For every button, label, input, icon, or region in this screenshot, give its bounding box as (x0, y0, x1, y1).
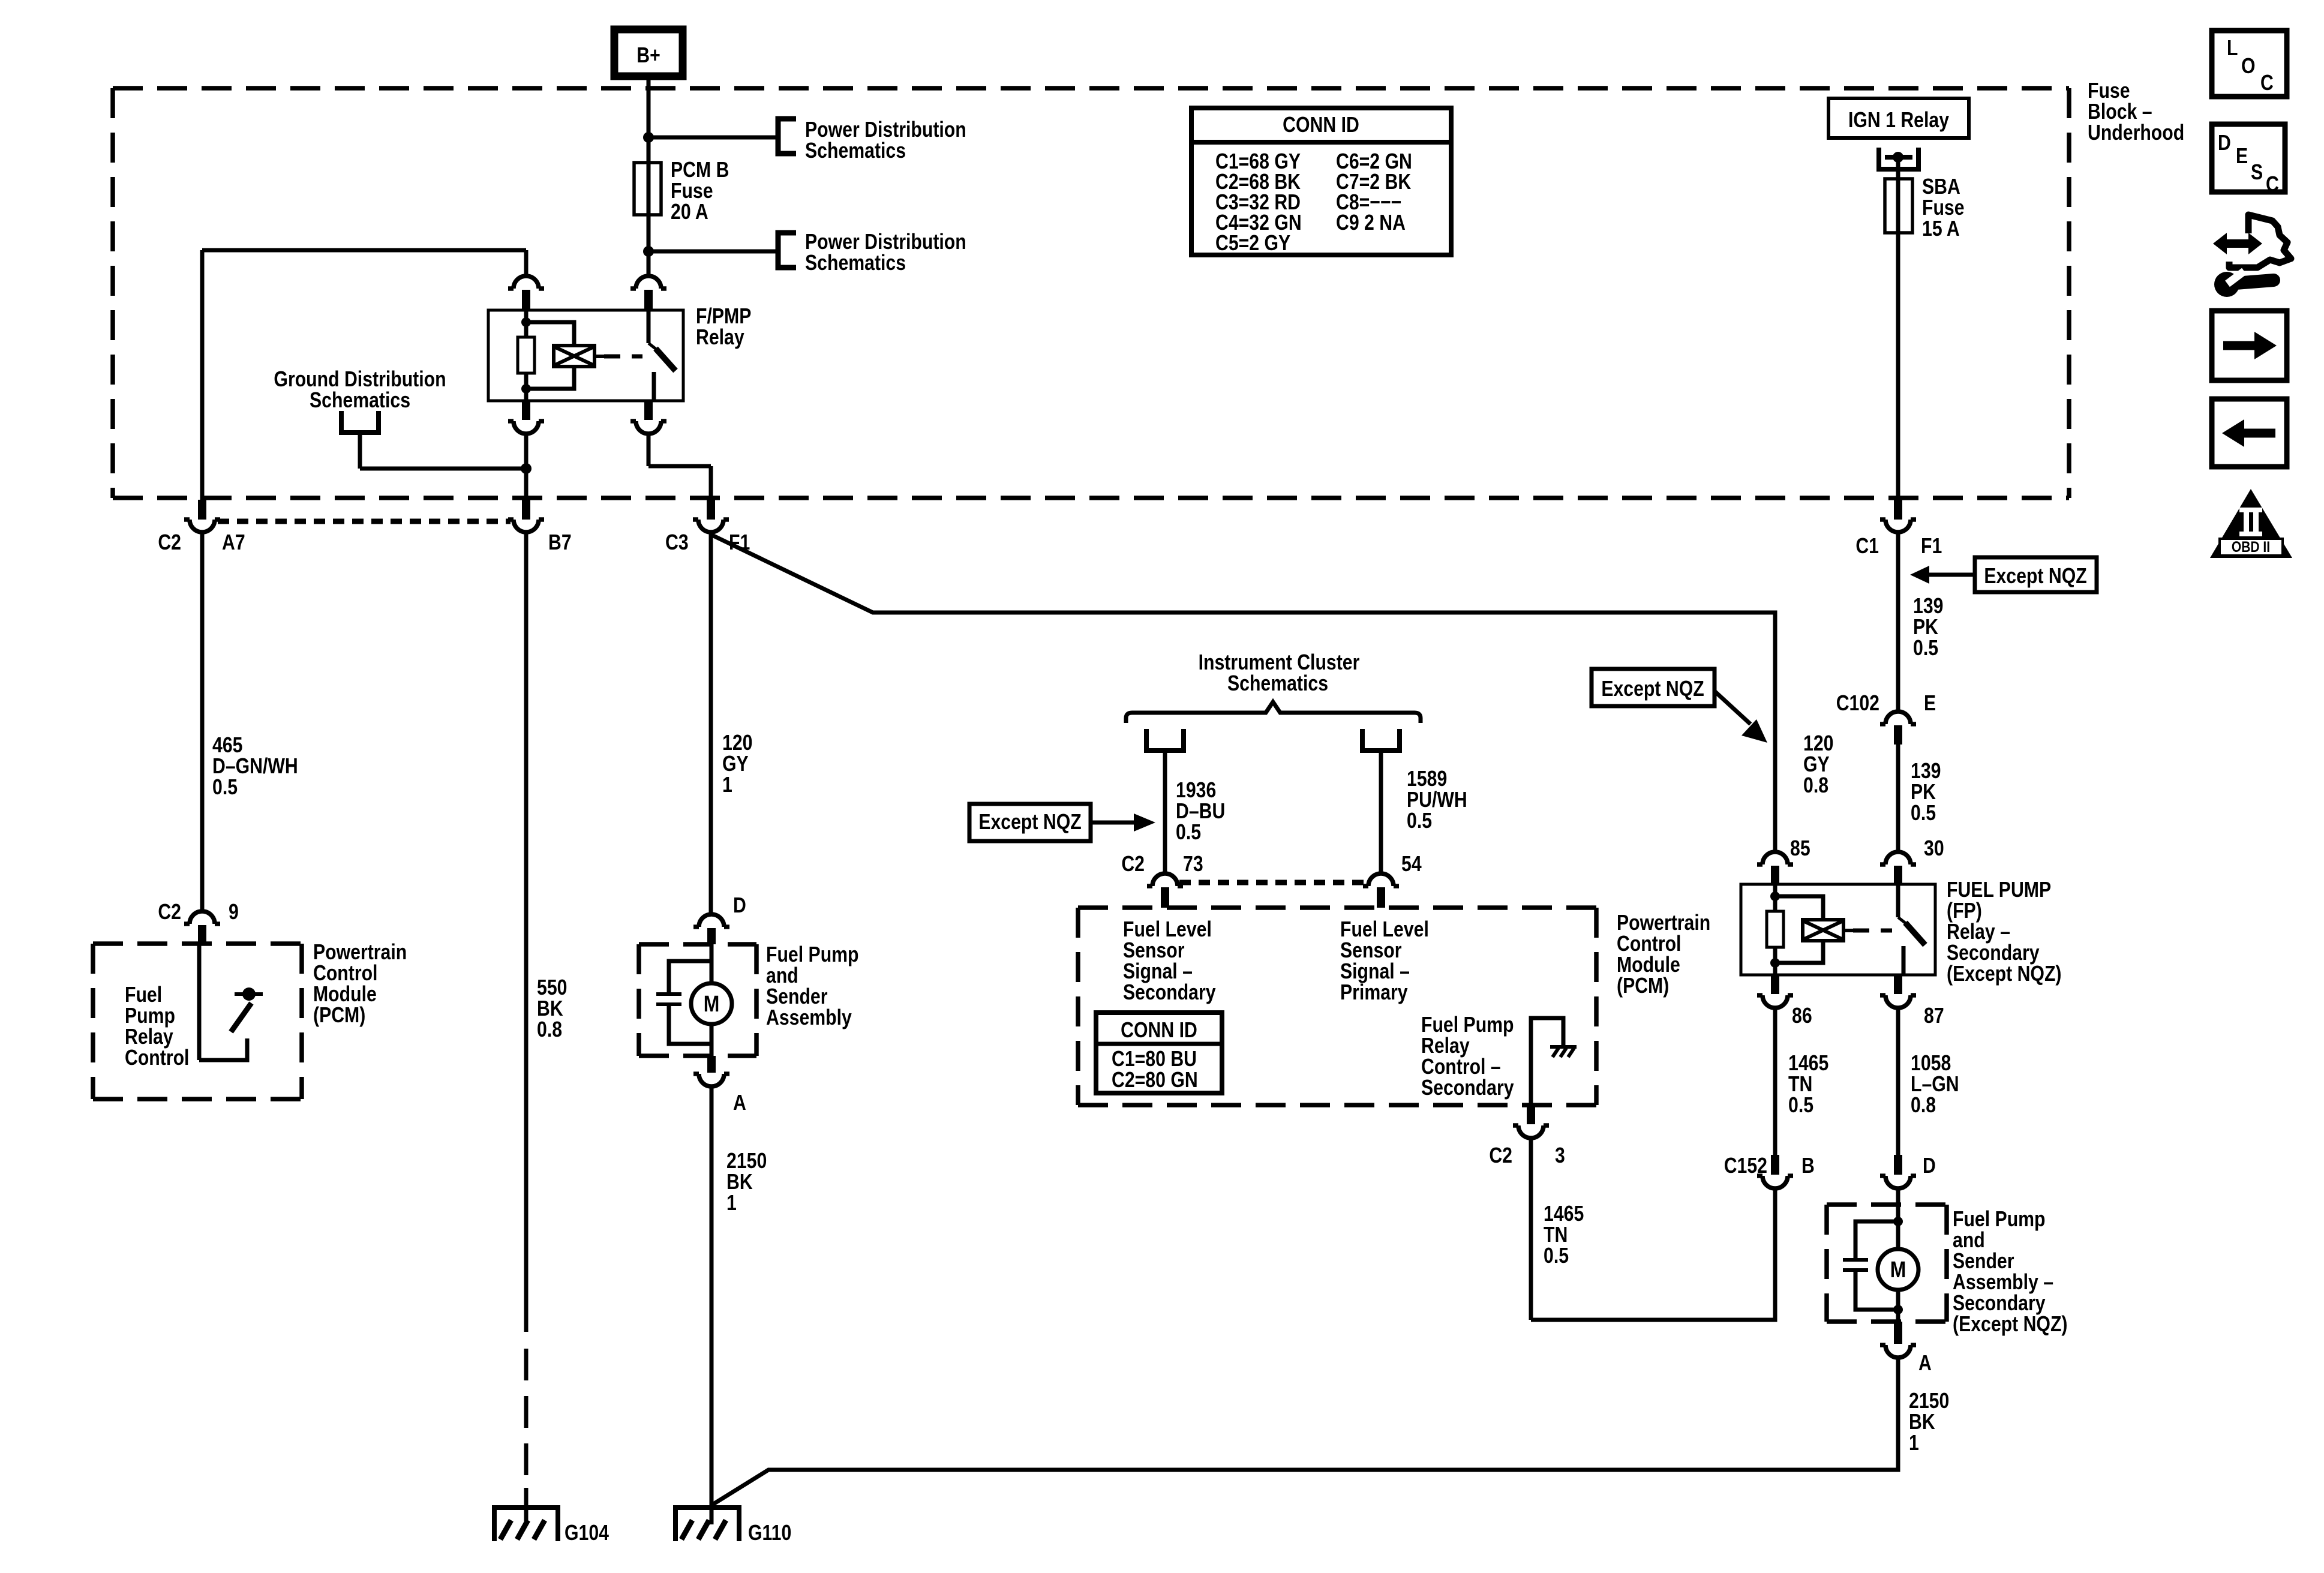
svg-text:L: L (2227, 37, 2238, 61)
connector arc F/PMP relay switch bottom pin (636, 421, 661, 434)
pin stub C2-3 (1527, 1104, 1535, 1124)
terminal ground distribution pointer (339, 411, 381, 433)
wire 1936 D-BU (1163, 751, 1167, 872)
wire down to C3 F1 (709, 466, 713, 500)
table CONN ID (PCM) (1096, 1013, 1222, 1093)
motor M primary fuel pump with capacitor (710, 944, 714, 983)
wire 2150 BK 1 to G110 (710, 1088, 714, 1524)
pin stub D (primary pump) (707, 928, 716, 944)
icon LOC box (2212, 31, 2287, 97)
connector arc F/PMP relay switch top pin (636, 276, 661, 289)
svg-text:C102: C102 (1836, 692, 1879, 716)
wire jog right (648, 464, 711, 469)
wire 550 BK 0.8 (524, 534, 529, 1332)
connector arc FP relay pin 30 (1885, 852, 1911, 864)
svg-text:87: 87 (1924, 1004, 1944, 1028)
svg-text:G110: G110 (748, 1521, 791, 1545)
switch fuel pump relay control driver (197, 944, 202, 1060)
svg-text:E: E (1924, 692, 1936, 716)
dotted link C2A7 to B7 (218, 519, 511, 524)
pin stub F/PMP relay coil top (522, 290, 530, 310)
box Powertrain Control Module PCM (dashed) (1078, 908, 1596, 1105)
connector arc FP relay pin 86 (1762, 995, 1788, 1008)
icon OBD II triangle (2210, 489, 2292, 558)
svg-text:(Except NQZ): (Except NQZ) (1947, 962, 2061, 986)
wire relay coil feed horizontal (202, 248, 526, 253)
pin stub connector C2 A7 (198, 500, 206, 520)
junction dot IGN 1 relay output (1893, 152, 1903, 163)
callout box Except NQZ 3 (969, 804, 1091, 841)
icon diagnostic scan tool (2213, 215, 2291, 297)
dotted link 73 to 54 (1179, 880, 1366, 885)
callout box Except NQZ 1 (1975, 557, 2097, 592)
pin stub C102 (1894, 725, 1902, 745)
wire through PCM B fuse (647, 163, 651, 215)
wire coil return to B7 (524, 434, 529, 500)
svg-text:B+: B+ (636, 44, 660, 68)
pin stub 54 (1377, 887, 1385, 908)
svg-text:O: O (2241, 55, 2256, 79)
svg-text:30: 30 (1924, 837, 1944, 861)
svg-text:15 A: 15 A (1922, 217, 1960, 241)
connector arc 54 (1368, 873, 1394, 886)
svg-text:C: C (2260, 71, 2274, 95)
connector B7 arc (514, 520, 539, 532)
svg-text:Except NQZ: Except NQZ (1601, 677, 1704, 701)
svg-text:(PCM): (PCM) (313, 1004, 365, 1028)
arrowhead Except NQZ 2 (1742, 719, 1767, 743)
wire 139 PK upper segment (1896, 532, 1900, 712)
connector C1 F1 arc (1885, 520, 1911, 532)
wire fuel pump relay control to A7 (200, 250, 205, 500)
svg-text:C: C (2266, 173, 2279, 197)
pin stub connector C3 F1 (707, 500, 715, 520)
box Fuel Pump and Sender Assembly (dashed) (639, 944, 756, 1056)
svg-text:C9 2 NA: C9 2 NA (1336, 211, 1406, 235)
relay FP secondary internals (coil, resistor, switch) (1773, 884, 1777, 975)
wire ground distribution down (358, 431, 362, 469)
brace instrument cluster (1126, 702, 1421, 723)
junction ground distribution / coil return (521, 463, 532, 474)
svg-text:0.5: 0.5 (1176, 821, 1201, 845)
connector C2-3 arc (1518, 1125, 1544, 1138)
svg-text:S: S (2251, 161, 2263, 185)
svg-text:0.8: 0.8 (537, 1018, 562, 1042)
relay F/PMP internals (coil, resistor, switch) (524, 310, 529, 401)
connector arc C2-9 (190, 911, 215, 924)
power feed B+ box (614, 29, 683, 76)
chassis ground (PCM internal) (1550, 1047, 1577, 1057)
svg-text:A: A (733, 1091, 746, 1115)
svg-text:0.5: 0.5 (1544, 1244, 1569, 1268)
motor M secondary fuel pump with capacitor (1896, 1205, 1900, 1249)
pin stub 87 (1894, 975, 1902, 994)
wire 1465 TN pin86 to C152 B (1773, 1008, 1777, 1155)
fuse block underhood dashed border (113, 88, 2069, 498)
svg-text:Except NQZ: Except NQZ (978, 810, 1081, 834)
svg-text:1: 1 (1909, 1431, 1919, 1455)
svg-text:C2: C2 (158, 531, 181, 555)
ground G110 symbol (673, 1505, 741, 1541)
svg-text:3: 3 (1555, 1144, 1565, 1168)
connector arc FP relay pin 87 (1885, 995, 1911, 1008)
svg-text:0.5: 0.5 (1913, 637, 1938, 661)
wire D to secondary pump box (1896, 1189, 1900, 1205)
svg-text:C2: C2 (158, 900, 181, 924)
pin stub F/PMP relay switch bottom (644, 401, 653, 420)
svg-text:Secondary: Secondary (1123, 981, 1216, 1005)
box Fuel Pump and Sender Assembly Secondary (dashed) (1827, 1205, 1947, 1322)
svg-text:D: D (2218, 131, 2231, 155)
svg-text:Except NQZ: Except NQZ (1984, 565, 2086, 589)
svg-text:B7: B7 (548, 531, 572, 555)
terminal instrument cluster right (1360, 729, 1402, 751)
pin stub A (primary pump) (707, 1056, 716, 1073)
svg-text:73: 73 (1183, 852, 1203, 876)
pin stub 86 (1771, 975, 1779, 994)
pin stub 85 (1771, 866, 1779, 884)
relay F/PMP box (488, 310, 683, 401)
svg-text:Assembly: Assembly (766, 1006, 852, 1030)
pin stub F/PMP relay switch top (644, 290, 653, 310)
svg-text:0.8: 0.8 (1911, 1094, 1936, 1118)
svg-text:IGN 1 Relay: IGN 1 Relay (1848, 109, 1949, 133)
connector A arc (primary pump) (699, 1074, 724, 1086)
wire 550 BK dashed to G104 (524, 1349, 529, 1504)
arrow line Except NQZ 3 (1091, 821, 1134, 825)
pin stub C152 B (1771, 1155, 1779, 1175)
pin stub A (secondary pump) (1894, 1322, 1902, 1344)
svg-text:Secondary: Secondary (1421, 1076, 1514, 1100)
svg-text:20 A: 20 A (671, 200, 708, 224)
svg-text:85: 85 (1790, 837, 1810, 861)
svg-text:E: E (2236, 145, 2248, 169)
terminal instrument cluster left (1144, 729, 1186, 751)
connector C102 arc (1885, 712, 1911, 724)
arrowhead Except NQZ 1 (1910, 566, 1929, 584)
svg-text:0.5: 0.5 (1788, 1094, 1813, 1118)
wire 2150 BK 1 secondary to G110 (711, 1358, 1898, 1505)
svg-text:Underhood: Underhood (2088, 121, 2184, 145)
off-page connector power distribution 1 (778, 119, 796, 154)
connector D arc (secondary pump) (1885, 1176, 1911, 1188)
pin stub connector B7 (522, 500, 530, 520)
svg-text:54: 54 (1401, 852, 1422, 876)
wire 1465 TN from C2-3 (1529, 1139, 1533, 1320)
svg-text:CONN ID: CONN ID (1283, 113, 1359, 137)
callout box Except NQZ 2 (1592, 669, 1715, 706)
svg-text:Schematics: Schematics (1227, 672, 1328, 696)
svg-text:CONN ID: CONN ID (1121, 1019, 1197, 1043)
box Powertrain Control Module PCM left (dashed) (93, 944, 302, 1099)
wire 1589 PU/WH (1379, 751, 1383, 872)
svg-text:M: M (1890, 1257, 1906, 1282)
wire 1465 TN return to PCM C2-3 (1531, 1189, 1775, 1320)
svg-text:9: 9 (229, 900, 239, 924)
svg-text:B: B (1801, 1154, 1815, 1178)
svg-text:Schematics: Schematics (805, 251, 906, 275)
svg-text:C152: C152 (1724, 1154, 1767, 1178)
svg-text:Relay: Relay (696, 326, 744, 350)
wire 120 GY 1 down to fuel pump D (709, 534, 713, 912)
wire IGN1 relay to SBA fuse (1896, 157, 1900, 179)
wire fuel pump relay control secondary to ground (1531, 1018, 1563, 1104)
wire 1058 L-GN pin87 to D (1896, 1008, 1900, 1155)
svg-text:(PCM): (PCM) (1617, 974, 1669, 998)
connector C152 B arc (1762, 1176, 1788, 1188)
junction B+ branch (643, 132, 654, 143)
connector arc F/PMP relay coil top pin (514, 276, 539, 289)
svg-text:A7: A7 (222, 531, 245, 555)
svg-text:Control: Control (125, 1046, 189, 1070)
wire branch to power distribution (top) (648, 136, 777, 140)
pin stub D (secondary pump) (1894, 1155, 1902, 1175)
relay IGN 1 box (1828, 98, 1969, 138)
connector arc D (primary pump) (699, 914, 724, 927)
wire B+ down to PCM B fuse (647, 76, 651, 163)
arrowhead Except NQZ 3 (1134, 813, 1155, 831)
connector arc FP relay pin 85 (1762, 852, 1788, 864)
svg-text:C2=80 GN: C2=80 GN (1112, 1068, 1198, 1092)
wire 120 GY 0.8 run to FP relay secondary (712, 535, 1775, 851)
fuse holder cup below IGN 1 relay (1876, 148, 1921, 172)
svg-text:1: 1 (722, 773, 732, 797)
connector C2 A7 arc (190, 520, 215, 532)
icon back arrow box (2212, 399, 2287, 467)
wire branch to power distribution (lower) (648, 250, 777, 254)
table CONN ID (fuse block) (1191, 108, 1451, 255)
pin stub 9 (198, 925, 206, 944)
ground G104 symbol (492, 1505, 560, 1541)
wire SBA fuse to C1 F1 (1896, 233, 1900, 500)
junction below PCM B fuse (643, 246, 654, 257)
wire into G104 (524, 1488, 529, 1524)
svg-text:(Except NQZ): (Except NQZ) (1953, 1313, 2067, 1337)
svg-text:0.5: 0.5 (1407, 809, 1432, 833)
wire 465 D-GN/WH (200, 534, 205, 909)
svg-text:0.5: 0.5 (212, 776, 238, 800)
svg-text:F1: F1 (1921, 535, 1942, 559)
off-page connector power distribution 2 (778, 233, 796, 268)
arrow line Except NQZ 2 (1715, 691, 1750, 724)
svg-text:D: D (1923, 1154, 1936, 1178)
connector C3 F1 arc (698, 520, 723, 532)
fuse SBA 15A symbol (1885, 179, 1912, 233)
svg-text:C2: C2 (1489, 1144, 1512, 1168)
svg-text:86: 86 (1792, 1004, 1812, 1028)
fuse PCM B 20A symbol (634, 163, 661, 215)
pin stub 30 (1894, 866, 1902, 884)
icon DESC box (2212, 124, 2285, 192)
icon forward arrow box (2212, 311, 2287, 380)
svg-text:1: 1 (726, 1191, 737, 1215)
wire PCM B fuse to F/PMP relay (647, 215, 651, 275)
connector arc C2-73 (1152, 873, 1178, 886)
relay FUEL PUMP (FP) secondary box (1741, 884, 1935, 975)
svg-text:Primary: Primary (1340, 981, 1408, 1005)
svg-text:C1: C1 (1855, 535, 1879, 559)
svg-text:C2: C2 (1121, 852, 1145, 876)
svg-text:Schematics: Schematics (310, 389, 410, 413)
connector A arc (secondary pump) (1885, 1345, 1911, 1358)
svg-text:M: M (704, 991, 720, 1016)
pin stub F/PMP relay coil bottom (522, 401, 530, 420)
wire 139 PK lower segment (1896, 745, 1900, 851)
svg-text:0.8: 0.8 (1803, 774, 1828, 798)
svg-text:C5=2 GY: C5=2 GY (1215, 232, 1290, 256)
svg-text:C3: C3 (665, 531, 689, 555)
pin stub connector C1 F1 (1894, 500, 1902, 520)
svg-text:A: A (1918, 1352, 1932, 1376)
arrow line Except NQZ 1 (1928, 573, 1975, 577)
pin stub 73 (1161, 887, 1169, 908)
wire down to F/PMP relay pin (524, 250, 529, 275)
wire through SBA fuse (1896, 179, 1900, 233)
svg-text:0.5: 0.5 (1911, 801, 1936, 825)
wire ground distribution to coil return (360, 467, 526, 471)
svg-text:OBD II: OBD II (2232, 538, 2270, 555)
wire relay switch output down (647, 434, 651, 466)
svg-text:Schematics: Schematics (805, 139, 906, 163)
svg-text:G104: G104 (565, 1521, 609, 1545)
svg-text:D: D (733, 894, 746, 918)
connector arc F/PMP relay coil bottom pin (514, 421, 539, 434)
